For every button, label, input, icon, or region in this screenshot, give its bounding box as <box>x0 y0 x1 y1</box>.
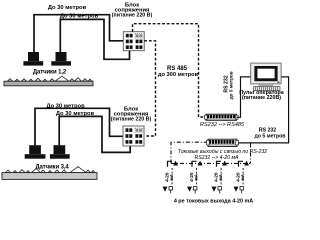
svg-text:До 30 метров: До 30 метров <box>60 14 99 20</box>
sensor датчик 4 <box>54 145 66 154</box>
current output group 1 <box>163 161 179 194</box>
svg-text:RS232 --> RS485: RS232 --> RS485 <box>200 122 245 128</box>
block1 interface unit <box>123 32 144 51</box>
svg-text:Датчики 3,4: Датчики 3,4 <box>35 164 69 170</box>
converter2 RS232 -> 4-20mA <box>207 139 239 146</box>
operator console (computer) <box>251 63 281 91</box>
svg-text:RS232 --> 4-20 мА: RS232 --> 4-20 мА <box>194 155 239 161</box>
RS485 dashed bus: block1 top stub, horizontal, down to converter1 <box>133 24 207 117</box>
ground bar top <box>4 81 93 86</box>
svg-text:до 5 метров: до 5 метров <box>255 133 286 139</box>
current output group 2 <box>187 161 203 194</box>
block2 interface unit <box>123 126 144 146</box>
current output group 4 <box>234 161 250 194</box>
sensor датчик 1 <box>28 52 39 61</box>
wire sensor2 to block1 bottom <box>60 19 129 59</box>
svg-text:Датчики 1,2: Датчики 1,2 <box>33 69 67 75</box>
svg-text:4 ре токовых выхода 4-20 mA: 4 ре токовых выхода 4-20 mA <box>174 199 253 205</box>
wire sensor3 to block2 <box>35 108 123 145</box>
svg-text:мА: мА <box>240 173 245 180</box>
wire sensor4 to block2 bottom <box>59 116 130 152</box>
current output group 3 <box>212 161 228 194</box>
svg-text:до 300 метров: до 300 метров <box>158 72 199 78</box>
svg-text:(питание 220 В): (питание 220 В) <box>111 117 152 123</box>
converter1 RS232->RS485 <box>205 114 238 120</box>
svg-text:(питание 220 В): (питание 220 В) <box>112 12 153 18</box>
svg-text:До 30 метров: До 30 метров <box>56 111 95 117</box>
svg-text:мА: мА <box>218 173 223 180</box>
wire sensor1 to block1 <box>34 15 123 53</box>
svg-text:мА: мА <box>169 173 174 180</box>
svg-text:До 30 метров: До 30 метров <box>48 5 87 11</box>
ground terrain bottom <box>6 167 96 173</box>
ground terrain top <box>8 76 93 81</box>
svg-text:до 5 метров: до 5 метров <box>229 71 234 99</box>
svg-text:мА: мА <box>193 173 198 180</box>
wire monitor to converter2 (RS232) <box>237 77 289 143</box>
current-outputs dashed-dot box <box>171 142 208 163</box>
sensor датчик 2 <box>56 52 67 61</box>
svg-text:(питание 220В): (питание 220В) <box>242 95 281 101</box>
wire converter1 to monitor (RS232) <box>237 77 251 117</box>
sensor датчик 3 <box>29 145 41 154</box>
RS485 dashed: block1 right to block2 right (daisy chain) <box>144 41 156 136</box>
ground bar bottom <box>2 173 97 180</box>
svg-text:До 30 метров: До 30 метров <box>46 103 85 109</box>
